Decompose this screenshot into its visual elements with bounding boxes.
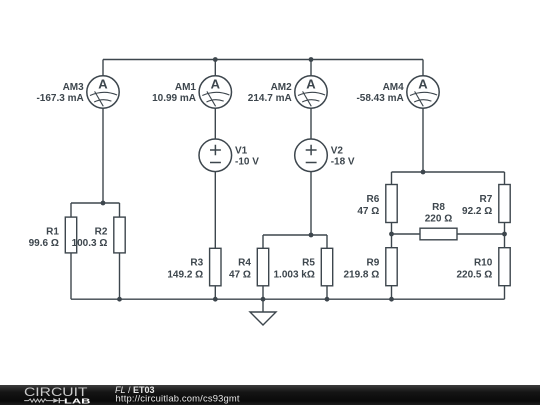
wire R7 bottom stub [504,223,506,235]
wire bridge mid rail right [457,233,505,235]
svg-text:R4: R4 [238,258,251,269]
svg-text:R9: R9 [367,258,380,269]
node dot bridge top [421,170,426,175]
svg-text:-18 V: -18 V [331,157,355,168]
wire R5 top stub [326,235,328,248]
ammeter AM3 [87,76,119,108]
node dot bottom R2 [117,297,122,302]
wire AM2 top stub [310,60,312,76]
resistor R9 [386,248,397,286]
svg-text:R3: R3 [190,258,203,269]
svg-text:1.003 kΩ: 1.003 kΩ [274,269,315,280]
svg-text:AM1: AM1 [175,82,197,93]
resistor R4 [257,248,268,285]
wire R9 bottom [391,286,393,300]
ammeter AM2 [295,76,327,108]
voltage source V1 [199,139,232,172]
footer bar [0,385,540,405]
wire R4 R5 top rail [263,234,327,236]
ammeter AM4 [407,76,439,108]
node dot bottom R3 [213,297,218,302]
node dot R4R5 top [309,233,314,238]
svg-text:47 Ω: 47 Ω [229,269,251,280]
wire R6 bottom stub [391,223,393,235]
wire R10 bottom [504,286,506,300]
svg-text:V2: V2 [331,146,344,157]
svg-text:47 Ω: 47 Ω [357,206,379,217]
svg-text:R5: R5 [302,258,315,269]
resistor R2 [114,217,125,253]
node dot bottom R9 [389,297,394,302]
resistor R5 [321,248,332,285]
svg-text:-58.43 mA: -58.43 mA [356,93,403,104]
svg-text:AM2: AM2 [271,82,293,93]
svg-text:10.99 mA: 10.99 mA [152,93,196,104]
svg-text:AM3: AM3 [63,82,85,93]
resistor R7 [499,185,510,223]
svg-text:http://circuitlab.com/cs93gmt: http://circuitlab.com/cs93gmt [116,393,240,404]
wire AM4 top stub [422,60,424,76]
ammeter AM1 [199,76,231,108]
wire AM3 to R1R2 node [102,108,104,203]
logo resistor zigzag and diode [24,398,64,403]
wire AM3 top stub [102,60,104,76]
svg-text:A: A [211,76,221,91]
ground [250,299,276,325]
svg-text:R10: R10 [474,258,493,269]
node dot bottom R5 [325,297,330,302]
svg-text:V1: V1 [235,146,248,157]
svg-text:AM4: AM4 [383,82,405,93]
node dot top AM1 [213,57,218,62]
svg-text:R7: R7 [480,194,493,205]
wire AM2 to V2 [310,108,312,139]
wire R6 top stub [391,172,393,185]
wire R7 top stub [504,172,506,185]
svg-text:92.2 Ω: 92.2 Ω [462,206,492,217]
svg-text:A: A [98,76,108,91]
wire R1 bottom [70,253,72,299]
svg-text:100.3 Ω: 100.3 Ω [72,238,108,249]
node dot R1R2 top [101,201,106,206]
svg-text:220 Ω: 220 Ω [425,214,452,225]
svg-text:214.7 mA: 214.7 mA [248,93,292,104]
wire R3 bottom [214,286,216,299]
wire R10 top stub [504,234,506,248]
resistor R6 [386,185,397,223]
svg-text:R1: R1 [46,226,59,237]
node dot top AM2 [309,57,314,62]
wire AM4 down to bridge [422,108,424,172]
wire AM1 top stub [214,60,216,76]
wire AM1 to V1 [214,108,216,139]
svg-text:-10 V: -10 V [235,157,259,168]
node dot bridge mid right [502,232,507,237]
svg-text:A: A [306,76,316,91]
wire R4 top stub [262,235,264,248]
wire bridge top rail [392,171,505,173]
wire R2 top stub [119,203,121,217]
voltage source V2 [295,139,328,172]
svg-text:LAB: LAB [64,396,91,405]
wire bottom rail [71,298,505,300]
svg-text:-167.3 mA: -167.3 mA [36,93,83,104]
wire R1 R2 top rail [71,202,120,204]
resistor R10 [499,248,510,286]
svg-text:R2: R2 [95,226,108,237]
wire V2 to node [310,172,312,235]
svg-text:99.6 Ω: 99.6 Ω [29,238,59,249]
svg-text:R6: R6 [367,194,380,205]
node dot bridge mid left [389,232,394,237]
wire R4 bottom [262,286,264,299]
wire top rail [103,59,423,61]
resistor R3 [210,248,221,285]
resistor R1 [65,217,76,253]
svg-text:219.8 Ω: 219.8 Ω [343,269,379,280]
svg-text:220.5 Ω: 220.5 Ω [456,269,492,280]
svg-text:R8: R8 [432,202,445,213]
node dot bottom ground [261,297,266,302]
wire R2 bottom [119,253,121,299]
wire V1 to R3 [214,172,216,249]
wire bridge mid rail left [392,233,421,235]
svg-text:149.2 Ω: 149.2 Ω [167,269,203,280]
resistor R8 [420,228,457,240]
wire R5 bottom [326,286,328,299]
svg-text:A: A [418,76,428,91]
wire R9 top stub [391,234,393,248]
wire R1 top stub [70,203,72,217]
